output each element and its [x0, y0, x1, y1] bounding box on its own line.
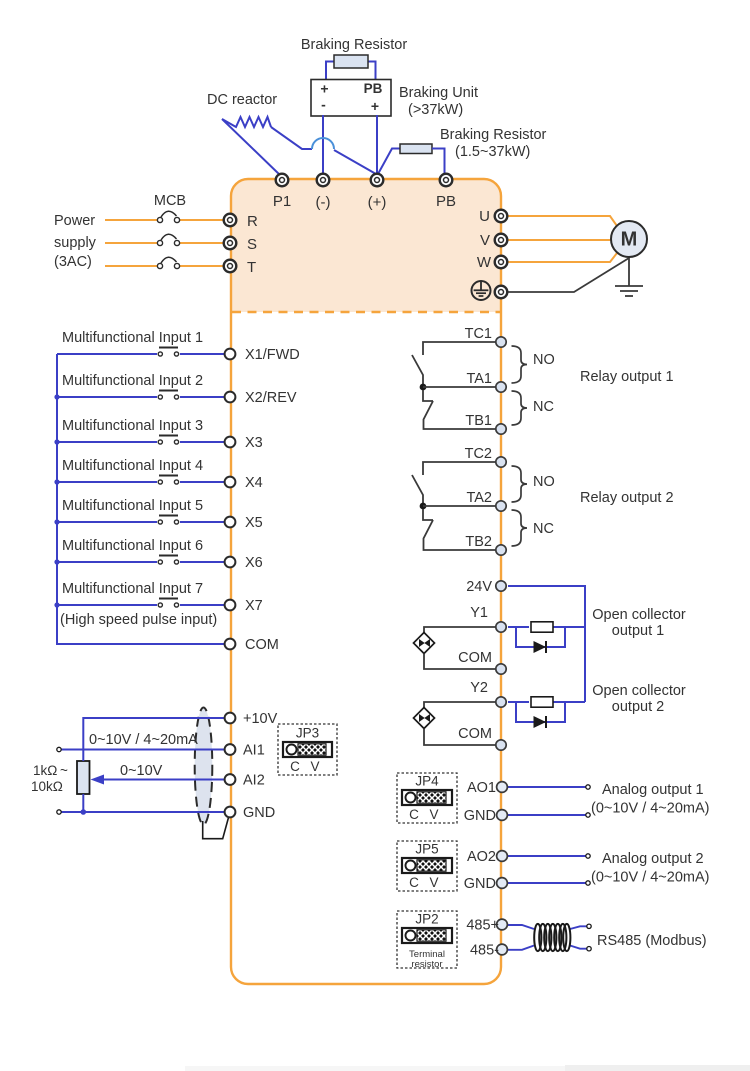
wire phase R right — [180, 219, 224, 221]
svg-text:NC: NC — [533, 399, 554, 415]
relay 2 NO fixed contact wire from TC2 — [423, 462, 501, 475]
terminal W — [495, 256, 508, 269]
svg-text:V: V — [429, 807, 438, 822]
svg-text:AI1: AI1 — [243, 743, 265, 759]
svg-text:+10V: +10V — [243, 711, 278, 727]
terminal GND (AO2) — [497, 878, 508, 889]
svg-text:(1.5~37kW): (1.5~37kW) — [455, 144, 530, 160]
junction relay 1 common node — [420, 384, 427, 391]
svg-text:0~10V / 4~20mA: 0~10V / 4~20mA — [89, 732, 198, 748]
svg-text:TB1: TB1 — [465, 413, 492, 429]
svg-text:C: C — [409, 807, 419, 822]
bottom gray strip — [185, 1066, 750, 1071]
svg-text:(0~10V / 4~20mA): (0~10V / 4~20mA) — [591, 801, 710, 817]
terminal Y2 — [496, 697, 506, 707]
wire TA1 common — [423, 386, 501, 388]
jumper block JP3 — [278, 724, 337, 775]
terminal AO2 — [497, 851, 508, 862]
svg-text:GND: GND — [464, 808, 496, 824]
wire phase W to motor — [508, 253, 617, 262]
terminal (-) — [317, 174, 330, 187]
svg-text:(0~10V / 4~20mA): (0~10V / 4~20mA) — [591, 870, 710, 886]
svg-text:JP5: JP5 — [415, 842, 438, 857]
wire input X5 left segment — [57, 521, 157, 523]
wire phase S left — [105, 242, 157, 244]
svg-text:V: V — [480, 232, 490, 249]
inductor DC reactor zigzag — [222, 117, 271, 127]
svg-text:Braking Resistor: Braking Resistor — [301, 37, 408, 53]
wire resistor to rail Y2 — [553, 701, 585, 703]
svg-text:X6: X6 — [245, 555, 263, 571]
svg-text:AO2: AO2 — [467, 849, 496, 865]
svg-text:Open collector: Open collector — [592, 607, 686, 623]
terminal AO1 — [497, 782, 508, 793]
svg-text:X3: X3 — [245, 435, 263, 451]
svg-text:P1: P1 — [273, 193, 291, 210]
node GND endpoint (AO2) — [586, 881, 590, 885]
motor M — [611, 221, 647, 257]
svg-text:Multifunctional Input 4: Multifunctional Input 4 — [62, 458, 203, 474]
wire input X7 right segment — [180, 604, 225, 606]
relay 1 movable blade (NO) — [412, 355, 423, 387]
arrow potentiometer wiper — [91, 775, 105, 785]
wire 485- to choke — [507, 946, 534, 950]
svg-text:0~10V: 0~10V — [120, 763, 163, 779]
wire phase T right — [180, 265, 224, 267]
wire braking resistor 2 right lead to PB terminal — [432, 149, 446, 177]
wire input X4 left segment — [57, 481, 157, 483]
wire input X1 left segment — [57, 353, 157, 355]
wire 24V to pull-up rail — [508, 586, 585, 702]
terminal U — [495, 210, 508, 223]
wire input X4 right segment — [180, 481, 225, 483]
terminal 485- — [497, 944, 508, 955]
svg-text:C: C — [290, 759, 300, 774]
wire Y1 to resistor — [508, 626, 529, 628]
terminal COM (digital) — [225, 639, 236, 650]
resistor pull-up Y2 — [531, 697, 553, 707]
dashed separator line between power and control sections — [232, 311, 500, 313]
terminal Y1 — [496, 622, 506, 632]
svg-text:RS485 (Modbus): RS485 (Modbus) — [597, 933, 707, 949]
resistor braking resistor (top) — [334, 55, 368, 68]
terminal X7 — [225, 600, 236, 611]
wire resistor to rail Y1 — [553, 626, 585, 628]
svg-text:NO: NO — [533, 474, 555, 490]
terminal TB2 — [496, 545, 506, 555]
node GND left endpoint — [57, 810, 61, 814]
terminal X5 — [225, 517, 236, 528]
diode clamp Y1 — [534, 641, 547, 653]
wire input X5 right segment — [180, 521, 225, 523]
terminal GND (analog in) — [225, 807, 236, 818]
svg-text:S: S — [247, 236, 257, 253]
svg-text:Multifunctional Input 2: Multifunctional Input 2 — [62, 373, 203, 389]
svg-text:NC: NC — [533, 521, 554, 537]
svg-text:supply: supply — [54, 235, 97, 251]
svg-text:Analog output 1: Analog output 1 — [602, 782, 704, 798]
svg-text:R: R — [247, 213, 258, 230]
breaker MCB pole S — [157, 234, 179, 245]
junction bus node X6 — [54, 559, 59, 564]
inductor common-mode choke — [534, 924, 570, 951]
svg-text:Multifunctional Input 5: Multifunctional Input 5 — [62, 498, 203, 514]
terminal 24V — [496, 581, 506, 591]
svg-text:Multifunctional Input 1: Multifunctional Input 1 — [62, 330, 203, 346]
wire shield drain to GND terminal — [203, 818, 229, 839]
wire choke to 485+ endpoint — [570, 926, 588, 929]
jumper JP4 header icon — [402, 790, 452, 805]
wire digital input common bus — [57, 354, 225, 644]
svg-text:output 2: output 2 — [612, 699, 664, 715]
svg-text:output 1: output 1 — [612, 623, 664, 639]
svg-text:Y1: Y1 — [470, 605, 488, 621]
svg-text:X7: X7 — [245, 598, 263, 614]
wire DC reactor right lead — [271, 127, 312, 149]
wire phase U to motor — [508, 216, 617, 226]
wire AO1 output — [507, 786, 588, 788]
brace NC relay 1 — [512, 391, 528, 425]
svg-text:Analog output 2: Analog output 2 — [602, 851, 704, 867]
terminal X3 — [225, 437, 236, 448]
wire Y1 to load symbol — [424, 627, 501, 633]
terminal TC1 — [496, 337, 506, 347]
wire input X6 left segment — [57, 561, 157, 563]
wire COM return Y2 — [424, 729, 501, 746]
jumper block JP4 — [397, 773, 457, 823]
wire PE to motor frame — [508, 258, 629, 292]
wire Y2 to resistor — [508, 701, 529, 703]
wire phase R left — [105, 219, 157, 221]
jumper JP2 header icon — [402, 928, 452, 943]
wire COM return Y1 — [424, 654, 501, 670]
wire input X2 left segment — [57, 396, 157, 398]
terminal (+) — [371, 174, 384, 187]
svg-text:COM: COM — [458, 650, 492, 666]
svg-text:C: C — [409, 875, 419, 890]
jumper block JP5 — [397, 841, 457, 891]
PE protective earth symbol — [472, 281, 491, 300]
svg-text:AI2: AI2 — [243, 773, 265, 789]
wire AI1 input — [59, 749, 225, 751]
svg-text:Braking Resistor: Braking Resistor — [440, 127, 547, 143]
svg-text:485-: 485- — [470, 943, 499, 959]
terminal +10V — [225, 713, 236, 724]
wire potentiometer bottom to GND — [82, 794, 84, 812]
terminal T — [224, 260, 237, 273]
svg-text:(>37kW): (>37kW) — [408, 102, 463, 118]
wire choke to 485- endpoint — [570, 946, 588, 949]
svg-text:V: V — [429, 875, 438, 890]
node AO2 endpoint — [586, 854, 590, 858]
svg-text:JP2: JP2 — [415, 912, 438, 927]
switch S2 (input X2) — [158, 391, 178, 400]
svg-text:JP3: JP3 — [296, 726, 319, 741]
wire phase V to motor — [508, 239, 611, 241]
terminal COM (Y2) — [496, 740, 506, 750]
inverter main block body — [231, 179, 501, 984]
svg-text:24V: 24V — [466, 579, 492, 595]
svg-text:Power: Power — [54, 213, 95, 229]
potentiometer 1k-10k ohm — [77, 761, 90, 794]
svg-text:Multifunctional Input 6: Multifunctional Input 6 — [62, 538, 203, 554]
svg-text:TC2: TC2 — [465, 446, 492, 462]
svg-text:Multifunctional Input 3: Multifunctional Input 3 — [62, 418, 203, 434]
svg-text:X5: X5 — [245, 515, 263, 531]
resistor braking resistor (1.5~37kW) — [400, 144, 432, 154]
svg-text:Multifunctional Input 7: Multifunctional Input 7 — [62, 581, 203, 597]
wire input X6 right segment — [180, 561, 225, 563]
terminal X1/FWD — [225, 349, 236, 360]
svg-text:Relay output 2: Relay output 2 — [580, 490, 674, 506]
wire DC reactor to P1 terminal — [222, 119, 281, 176]
svg-text:COM: COM — [245, 637, 279, 653]
relay 2 NC blade — [424, 520, 502, 550]
inverter block border — [231, 179, 501, 984]
svg-text:Braking Unit: Braking Unit — [399, 85, 478, 101]
terminal AI2 — [225, 774, 236, 785]
svg-text:T: T — [247, 259, 256, 276]
wire hop to (+) terminal — [334, 150, 376, 174]
wire phase S right — [180, 242, 224, 244]
wire diode loop Y1 — [516, 627, 565, 647]
svg-text:TA1: TA1 — [466, 371, 492, 387]
wire braking resistor right lead — [368, 62, 376, 81]
terminal AI1 — [225, 744, 236, 755]
terminal TB1 — [496, 424, 506, 434]
relay 1 NC contact symbol — [423, 390, 433, 401]
svg-text:X4: X4 — [245, 475, 263, 491]
terminal TC2 — [496, 457, 506, 467]
switch S4 (input X4) — [158, 476, 178, 485]
node 485+ endpoint — [587, 924, 591, 928]
svg-text:W: W — [477, 254, 492, 271]
breaker MCB pole R — [157, 211, 179, 222]
svg-text:TB2: TB2 — [465, 534, 492, 550]
wire GND analog — [59, 811, 225, 813]
svg-text:M: M — [621, 229, 638, 251]
svg-text:X2/REV: X2/REV — [245, 390, 297, 406]
wire input X7 left segment — [57, 604, 157, 606]
wire +10V to potentiometer top — [83, 718, 225, 761]
junction bus node X3 — [54, 439, 59, 444]
terminal COM (Y1) — [496, 664, 506, 674]
wire input X3 right segment — [180, 441, 225, 443]
wire hop arc over minus wire — [312, 138, 334, 149]
svg-text:GND: GND — [464, 876, 496, 892]
node GND endpoint (AO1) — [586, 813, 590, 817]
svg-text:(+): (+) — [368, 194, 387, 211]
brace NO relay 2 — [512, 466, 528, 502]
junction relay 2 common node — [420, 503, 427, 510]
wire input X1 right segment — [180, 353, 225, 355]
wire braking unit plus to (+) terminal — [376, 115, 378, 176]
relay 1 NO fixed contact wire from TC1 — [423, 342, 501, 355]
breaker MCB pole T — [157, 257, 179, 268]
svg-text:MCB: MCB — [154, 193, 186, 209]
switch S5 (input X5) — [158, 516, 178, 525]
relay 2 NC contact symbol — [423, 509, 433, 520]
junction bus node X5 — [54, 519, 59, 524]
diode clamp Y2 — [534, 716, 547, 728]
svg-text:JP4: JP4 — [415, 774, 439, 789]
junction potentiometer-GND — [81, 809, 87, 815]
wire motor to earth — [628, 256, 630, 286]
terminal 485+ — [497, 919, 508, 930]
brace NO relay 1 — [512, 346, 528, 383]
svg-text:X1/FWD: X1/FWD — [245, 347, 300, 363]
wire input X2 right segment — [180, 396, 225, 398]
wire braking resistor 2 left lead to (+) terminal — [378, 149, 400, 175]
jumper block JP2 — [397, 911, 457, 968]
wire diode loop Y2 — [516, 702, 565, 722]
wire GND (AO1) — [507, 814, 588, 816]
relay 2 movable blade (NO) — [412, 475, 423, 506]
wire 485+ to choke — [507, 925, 534, 929]
junction bus node X2 — [54, 394, 59, 399]
svg-text:10kΩ: 10kΩ — [31, 779, 63, 794]
terminal GND (AO1) — [497, 810, 508, 821]
switch S6 (input X6) — [158, 556, 178, 565]
switch S7 (input X7) — [158, 599, 178, 608]
node AO1 endpoint — [586, 785, 590, 789]
junction bus node X4 — [54, 479, 59, 484]
wire braking unit minus to (-) terminal — [322, 115, 324, 176]
terminal TA1 — [496, 382, 506, 392]
junction bus node X7 — [54, 602, 59, 607]
terminal X4 — [225, 477, 236, 488]
wire input X3 left segment — [57, 441, 157, 443]
terminal PE — [495, 286, 508, 299]
terminal V — [495, 234, 508, 247]
svg-text:1kΩ ~: 1kΩ ~ — [33, 763, 68, 778]
node AI1 left endpoint — [57, 747, 61, 751]
svg-text:(-): (-) — [316, 194, 331, 211]
svg-text:Relay output 1: Relay output 1 — [580, 369, 674, 385]
svg-text:Y2: Y2 — [470, 680, 488, 696]
terminal TA2 — [496, 501, 506, 511]
svg-text:resistor: resistor — [411, 959, 442, 970]
jumper JP3 header icon — [283, 742, 332, 757]
svg-text:AO1: AO1 — [467, 780, 496, 796]
wire AI2 to wiper arrow — [100, 779, 225, 781]
svg-text:V: V — [310, 759, 319, 774]
switch S3 (input X3) — [158, 436, 178, 445]
wire phase T left — [105, 265, 157, 267]
load symbol (current source diamond) Y1 — [414, 633, 435, 654]
brace NC relay 2 — [512, 510, 528, 546]
svg-text:+: + — [371, 98, 379, 114]
svg-text:PB: PB — [364, 81, 383, 96]
resistor pull-up Y1 — [531, 622, 553, 632]
load symbol (current source diamond) Y2 — [414, 708, 435, 729]
relay 1 NC blade — [424, 401, 502, 429]
braking unit box — [311, 80, 391, 117]
switch S1 (input X1) — [158, 348, 178, 357]
svg-text:TA2: TA2 — [466, 490, 492, 506]
terminal X6 — [225, 557, 236, 568]
svg-text:COM: COM — [458, 726, 492, 742]
terminal P1 — [276, 174, 289, 187]
wire Y2 to load symbol — [424, 702, 501, 708]
svg-text:GND: GND — [243, 805, 275, 821]
wire AO2 output — [507, 855, 588, 857]
node 485- endpoint — [587, 947, 591, 951]
svg-text:+: + — [320, 81, 328, 97]
terminal PB — [440, 174, 453, 187]
terminal X2/REV — [225, 392, 236, 403]
svg-text:-: - — [321, 97, 326, 113]
wire GND (AO2) — [507, 882, 588, 884]
svg-text:PB: PB — [436, 193, 456, 210]
shield ellipse (cable screen) — [195, 708, 213, 825]
svg-text:(3AC): (3AC) — [54, 254, 92, 270]
wire braking resistor left lead — [326, 62, 334, 81]
svg-text:Open collector: Open collector — [592, 683, 686, 699]
ground earth symbol at motor — [615, 286, 643, 296]
svg-text:U: U — [479, 208, 490, 225]
svg-text:TC1: TC1 — [465, 326, 492, 342]
wire TA2 common — [423, 505, 501, 507]
terminal R — [224, 214, 237, 227]
svg-text:(High speed pulse input): (High speed pulse input) — [60, 612, 217, 628]
svg-text:485+: 485+ — [466, 918, 499, 934]
jumper JP5 header icon — [402, 858, 452, 873]
svg-text:DC reactor: DC reactor — [207, 92, 277, 108]
svg-text:NO: NO — [533, 352, 555, 368]
inverter power section peach fill — [231, 179, 501, 312]
terminal S — [224, 237, 237, 250]
